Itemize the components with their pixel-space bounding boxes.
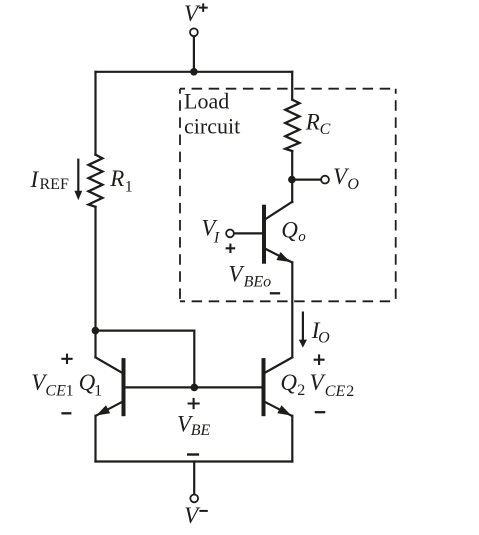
label minus VBE — [187, 453, 199, 455]
svg-text:1: 1 — [125, 179, 133, 196]
wire Qo emitter down — [291, 262, 293, 357]
svg-text:1: 1 — [66, 382, 74, 399]
transistor Q1 — [96, 357, 124, 415]
label VO — [333, 164, 359, 193]
wire Q1 emitter down — [94, 416, 96, 462]
svg-text:I: I — [213, 230, 220, 247]
wire V+ stub — [193, 37, 195, 72]
label minus VBEo — [270, 292, 280, 294]
terminal V+ — [190, 28, 198, 36]
svg-text:V: V — [184, 503, 201, 528]
svg-text:O: O — [347, 176, 359, 193]
load circuit dashed box — [180, 89, 396, 302]
node junction top — [190, 68, 198, 76]
label RC — [305, 110, 331, 138]
svg-text:CE: CE — [325, 383, 346, 400]
svg-text:R: R — [109, 166, 124, 191]
wire VI stub — [234, 232, 262, 234]
svg-text:R: R — [305, 110, 320, 135]
svg-text:o: o — [298, 229, 306, 245]
svg-text:BEo: BEo — [244, 273, 272, 290]
resistor R1 — [89, 155, 103, 207]
label plus VCE1 — [61, 354, 72, 364]
label R1 — [109, 166, 132, 196]
svg-text:BE: BE — [191, 422, 211, 439]
label IREF — [30, 167, 69, 193]
current arrow IREF — [74, 160, 82, 201]
svg-text:Q: Q — [280, 370, 297, 395]
label plus VCE2 — [314, 354, 325, 365]
label VCE1 — [31, 370, 73, 399]
label minus VCE1 — [61, 412, 71, 414]
label V- — [184, 503, 208, 528]
node junction VO — [288, 176, 296, 184]
label Load circuit — [184, 89, 240, 139]
wire VO stub — [292, 179, 321, 181]
wire left middle — [94, 207, 96, 331]
label Q1 — [79, 370, 103, 399]
wire right upper — [291, 72, 293, 100]
svg-text:1: 1 — [94, 382, 102, 399]
svg-text:2: 2 — [297, 382, 305, 399]
label VBE — [177, 411, 210, 439]
svg-text:O: O — [318, 329, 330, 346]
transistor Q2 — [264, 357, 293, 415]
label minus VCE2 — [315, 411, 326, 413]
svg-text:REF: REF — [40, 176, 69, 193]
label IO — [311, 318, 330, 346]
svg-text:V: V — [184, 1, 201, 26]
label plus VBE — [188, 398, 200, 409]
svg-text:2: 2 — [346, 383, 354, 400]
wire left upper — [94, 72, 96, 155]
wire top rail — [96, 71, 293, 73]
svg-text:Load: Load — [184, 89, 229, 114]
current arrow IO — [299, 313, 307, 348]
node V+ label — [184, 1, 208, 26]
wire Q2 emitter down — [291, 416, 293, 462]
label Qo — [281, 218, 306, 246]
terminal VI — [226, 230, 234, 238]
label VCE2 — [310, 370, 355, 400]
label plus VBEo — [226, 244, 236, 253]
label Q2 — [280, 370, 305, 399]
svg-text:circuit: circuit — [184, 113, 240, 138]
svg-text:CE: CE — [45, 382, 66, 399]
svg-text:C: C — [320, 121, 331, 138]
wire base rail — [126, 386, 262, 388]
resistor RC — [285, 100, 299, 151]
terminal VO — [321, 176, 329, 184]
wire bottom rail — [96, 460, 293, 462]
wire RC to collector — [291, 151, 293, 202]
label VI — [201, 216, 220, 247]
svg-text:Q: Q — [79, 370, 96, 395]
node junction left — [92, 327, 100, 335]
svg-text:I: I — [30, 167, 40, 192]
wire left to Q1 collector — [94, 331, 96, 358]
svg-text:Q: Q — [281, 218, 298, 243]
label VBEo — [228, 261, 271, 290]
wire mirror link — [96, 331, 195, 388]
transistor Qo — [264, 202, 292, 263]
node junction base — [191, 384, 199, 392]
terminal V- — [190, 495, 198, 503]
wire V- stub — [193, 462, 195, 494]
